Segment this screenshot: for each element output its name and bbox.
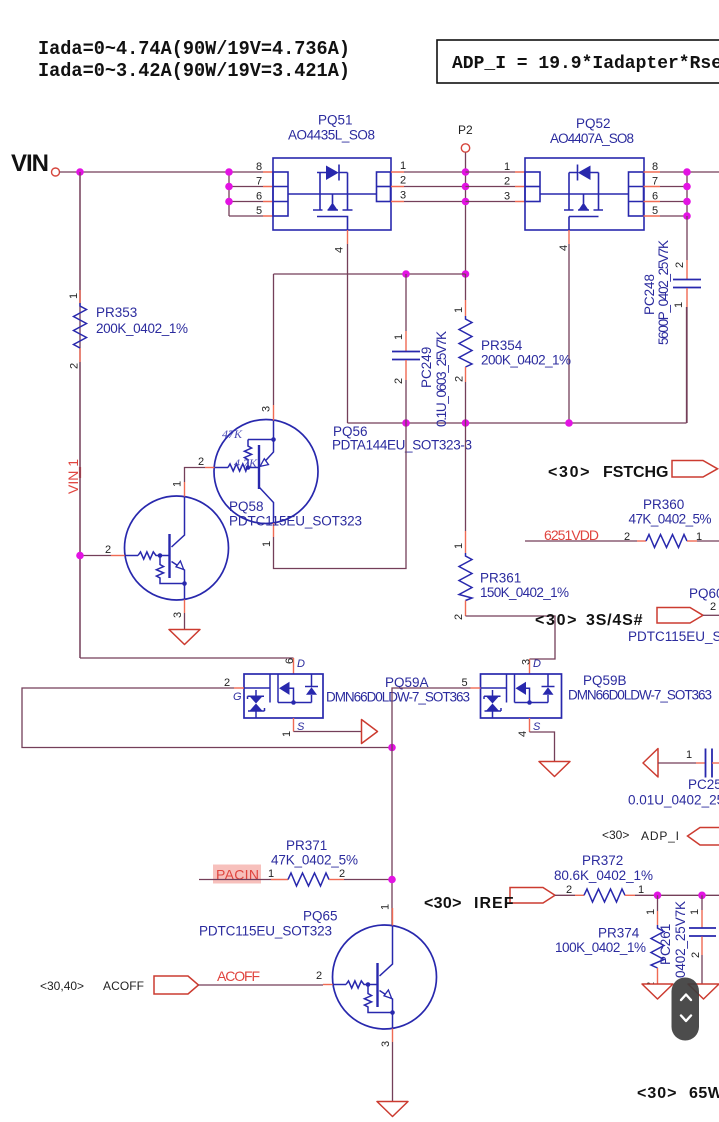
net flag ADP_I (left-pointing, clipped) bbox=[688, 828, 719, 846]
svg-text:0402_25V7K: 0402_25V7K bbox=[673, 901, 688, 978]
svg-text:1: 1 bbox=[261, 541, 273, 547]
svg-text:2: 2 bbox=[690, 952, 702, 958]
PQ52 body diode (filled, mirrored) bbox=[578, 166, 591, 181]
PQ58 internal node dots bbox=[158, 553, 163, 558]
pin 2 stub PQ65 (base left) bbox=[323, 984, 333, 986]
svg-text:VIN: VIN bbox=[11, 150, 49, 177]
svg-text:7: 7 bbox=[652, 176, 658, 188]
pin stubs PQ52 left (red) bbox=[515, 172, 525, 202]
pin 4 wire PQ51 bbox=[347, 230, 349, 244]
svg-text:3: 3 bbox=[380, 1041, 392, 1047]
svg-text:5: 5 bbox=[652, 205, 658, 217]
resistor PR372 bbox=[554, 853, 719, 902]
svg-text:1: 1 bbox=[380, 904, 392, 910]
wire net y423 horizontal bbox=[348, 307, 687, 423]
svg-text:<30>: <30> bbox=[548, 464, 590, 481]
svg-text:5: 5 bbox=[256, 205, 262, 217]
pin 2 wire PQ58 (base left) bbox=[111, 555, 125, 557]
resistor PR354 bbox=[453, 274, 571, 423]
PQ59A channel arrow (filled, left) bbox=[279, 682, 290, 695]
svg-text:IREF: IREF bbox=[474, 895, 514, 912]
svg-text:3S/4S#: 3S/4S# bbox=[586, 612, 643, 629]
svg-text:80.6K_0402_1%: 80.6K_0402_1% bbox=[554, 868, 653, 883]
svg-text:<30,40>: <30,40> bbox=[40, 979, 84, 993]
svg-text:3: 3 bbox=[504, 191, 510, 203]
ground below PQ58 bbox=[169, 630, 200, 645]
PQ58 emitter arrow (open) bbox=[176, 561, 184, 570]
PQ59A gate ESD zener (filled hourglass) bbox=[250, 696, 263, 703]
svg-text:S: S bbox=[533, 721, 541, 733]
wire flag to PQ60 bbox=[703, 614, 719, 616]
PQ56 emitter arrow (open) bbox=[260, 459, 269, 467]
svg-text:DMN66D0LDW-7_SOT363: DMN66D0LDW-7_SOT363 bbox=[568, 688, 712, 703]
scroll widget bbox=[672, 978, 700, 1041]
highlight PACIN bbox=[213, 865, 261, 884]
svg-text:PR371: PR371 bbox=[286, 838, 327, 853]
MOSFET PQ52 bbox=[525, 158, 644, 230]
junction dots y423 bbox=[402, 419, 410, 427]
svg-text:2: 2 bbox=[674, 262, 686, 268]
pin 3 wire PQ65 (emitter down) bbox=[392, 1029, 394, 1043]
svg-text:PR361: PR361 bbox=[480, 571, 521, 586]
svg-text:Iada=0~3.42A(90W/19V=3.421A): Iada=0~3.42A(90W/19V=3.421A) bbox=[38, 60, 350, 82]
svg-text:1: 1 bbox=[673, 302, 685, 308]
svg-text:D: D bbox=[297, 658, 305, 670]
svg-text:8: 8 bbox=[256, 161, 262, 173]
PQ51 substrate arrow (filled) bbox=[328, 203, 337, 210]
svg-text:0.01U_0402_25V7K: 0.01U_0402_25V7K bbox=[628, 793, 719, 808]
resistor PR371 bbox=[199, 838, 392, 886]
wire ACOFF to PQ65 bbox=[199, 984, 324, 986]
svg-text:D: D bbox=[533, 658, 541, 670]
svg-text:2: 2 bbox=[566, 884, 572, 896]
svg-text:PQ65: PQ65 bbox=[303, 909, 338, 924]
wires PQ51 to P2 column bbox=[404, 172, 466, 202]
svg-text:2: 2 bbox=[710, 601, 716, 613]
svg-text:2: 2 bbox=[316, 970, 322, 982]
svg-text:G: G bbox=[233, 691, 242, 703]
svg-text:1: 1 bbox=[504, 161, 510, 173]
pin 4 wire PQ52 bbox=[568, 230, 570, 244]
svg-text:1: 1 bbox=[638, 884, 644, 896]
svg-text:PR354: PR354 bbox=[481, 338, 523, 353]
PQ59A body diode (filled, up) bbox=[306, 687, 317, 695]
svg-text:ACOFF: ACOFF bbox=[103, 979, 144, 993]
svg-text:4: 4 bbox=[558, 245, 570, 251]
terminal arrow (left) for PC250 bbox=[643, 749, 658, 778]
capacitor PC248 bbox=[642, 216, 701, 423]
pin 1 wire PQ58 (collector up) bbox=[184, 482, 186, 497]
svg-text:3: 3 bbox=[172, 612, 184, 618]
svg-text:PDTC115EU_SOT323: PDTC115EU_SOT323 bbox=[628, 629, 719, 644]
svg-text:2: 2 bbox=[400, 175, 406, 187]
svg-text:PR372: PR372 bbox=[582, 853, 623, 868]
pin 3 wire PQ56 (emitter up) bbox=[273, 405, 275, 421]
wire VIN vertical x80 bbox=[79, 172, 81, 658]
resistor PR361 bbox=[453, 423, 569, 620]
ground below PR374 bbox=[642, 984, 673, 999]
pin 1 wire PQ56 (collector down) bbox=[273, 523, 275, 537]
svg-text:5: 5 bbox=[462, 677, 468, 689]
svg-text:PDTC115EU_SOT323: PDTC115EU_SOT323 bbox=[199, 924, 332, 939]
wire loop vertical to PACIN row bbox=[391, 748, 393, 926]
junction dots y274 bbox=[402, 270, 410, 278]
svg-text:<30>: <30> bbox=[637, 1085, 677, 1102]
net flag FSTCHG bbox=[672, 461, 718, 478]
pin 3 wire PQ58 (emitter down) bbox=[184, 600, 186, 614]
transistor PQ65 (NPN digital) bbox=[199, 904, 437, 1117]
svg-text:1: 1 bbox=[645, 909, 657, 915]
net tick on VIN_1 wire bbox=[79, 467, 81, 478]
svg-text:FSTCHG: FSTCHG bbox=[603, 464, 669, 481]
pin stubs PQ51 left (red) bbox=[263, 172, 273, 216]
svg-text:0.1U_0603_25V7K: 0.1U_0603_25V7K bbox=[434, 331, 449, 427]
svg-text:200K_0402_1%: 200K_0402_1% bbox=[481, 353, 571, 368]
wire net y274 horizontal bbox=[274, 273, 466, 275]
svg-text:65W: 65W bbox=[689, 1085, 719, 1102]
PQ51 body diode (filled) bbox=[326, 166, 339, 181]
wire VIN horizontal top bbox=[60, 171, 230, 173]
svg-text:6: 6 bbox=[652, 191, 658, 203]
capacitor PC250 bbox=[628, 749, 719, 808]
svg-text:<30>: <30> bbox=[424, 895, 462, 912]
svg-text:7: 7 bbox=[256, 176, 262, 188]
svg-text:6: 6 bbox=[284, 658, 296, 664]
wires PQ52 right to x687 column bbox=[660, 172, 719, 216]
svg-text:2: 2 bbox=[624, 531, 630, 543]
junction dot VIN/PQ58 base bbox=[76, 552, 84, 560]
net flag IREF bbox=[510, 888, 555, 904]
PQ59B source dot bbox=[527, 700, 532, 705]
MOSFET PQ51 bbox=[273, 158, 391, 230]
junction dot PACIN net bbox=[388, 876, 396, 884]
svg-text:1: 1 bbox=[172, 481, 184, 487]
svg-text:PC249: PC249 bbox=[419, 347, 434, 388]
svg-text:6: 6 bbox=[256, 191, 262, 203]
svg-text:PR353: PR353 bbox=[96, 305, 137, 320]
svg-text:2: 2 bbox=[454, 376, 466, 382]
svg-text:100K_0402_1%: 100K_0402_1% bbox=[555, 940, 646, 955]
svg-text:PQ60: PQ60 bbox=[689, 586, 719, 601]
wire PQ58-emitter-net bottom horizontal y658 bbox=[80, 657, 294, 659]
svg-text:1: 1 bbox=[281, 731, 293, 737]
svg-text:2: 2 bbox=[504, 176, 510, 188]
pin 2 wire PQ56 (base left) bbox=[205, 467, 215, 469]
svg-text:1: 1 bbox=[393, 334, 405, 340]
svg-text:ADP_I: ADP_I bbox=[641, 829, 679, 843]
wire P2 column bbox=[465, 153, 467, 275]
PQ59B gate ESD zener (filled hourglass) bbox=[486, 696, 499, 703]
pin 1 wire PQ59A source bbox=[293, 718, 295, 732]
svg-text:DMN66D0LDW-7_SOT363: DMN66D0LDW-7_SOT363 bbox=[326, 690, 470, 705]
svg-text:AO4435L_SO8: AO4435L_SO8 bbox=[288, 128, 375, 143]
svg-text:200K_0402_1%: 200K_0402_1% bbox=[96, 321, 188, 336]
pin stubs PQ52 right (red) bbox=[644, 172, 661, 216]
junction dots x687 column bbox=[683, 168, 691, 176]
junction dots x229 column bbox=[225, 168, 233, 176]
junction dot loop/PQ59B gate bbox=[388, 744, 396, 752]
PQ59A source dot bbox=[291, 700, 296, 705]
pin 1 wire PQ65 (collector up) bbox=[392, 908, 394, 926]
pin 5 wire PQ59B gate bbox=[471, 687, 481, 689]
svg-text:4: 4 bbox=[517, 731, 529, 737]
wires P2 column to PQ52 bbox=[466, 172, 516, 202]
formula box ADP_I bbox=[437, 40, 719, 83]
pin stubs PQ51 right (red) bbox=[391, 172, 404, 202]
svg-text:5600P_0402_25V7K: 5600P_0402_25V7K bbox=[656, 240, 671, 345]
capacitor PC249 bbox=[392, 274, 449, 427]
terminal circle VIN bbox=[52, 168, 60, 176]
ground below PC261 (clipped) bbox=[688, 984, 719, 999]
wire stub column x229 to PQ51 bbox=[229, 172, 263, 216]
net flag PQ60 pin2 bbox=[657, 608, 703, 624]
ground below PQ59B bbox=[539, 762, 570, 777]
svg-text:3: 3 bbox=[521, 659, 533, 665]
svg-text:PC250: PC250 bbox=[688, 777, 719, 792]
svg-text:PDTA144EU_SOT323-3: PDTA144EU_SOT323-3 bbox=[332, 438, 472, 453]
capacitor PC261 bbox=[658, 895, 716, 984]
svg-text:S: S bbox=[297, 721, 305, 733]
svg-text:P2: P2 bbox=[458, 123, 473, 137]
svg-text:PR374: PR374 bbox=[598, 926, 640, 941]
svg-text:1: 1 bbox=[453, 307, 465, 313]
junction dots P2 column bbox=[462, 168, 470, 176]
svg-text:PQ58: PQ58 bbox=[229, 499, 264, 514]
svg-text:PC261: PC261 bbox=[658, 924, 673, 965]
junction dot PR374 bbox=[654, 892, 662, 900]
svg-text:1: 1 bbox=[68, 293, 80, 299]
svg-text:3: 3 bbox=[400, 190, 406, 202]
svg-text:PDTC115EU_SOT323: PDTC115EU_SOT323 bbox=[229, 514, 362, 529]
svg-text:4.7K: 4.7K bbox=[234, 456, 258, 470]
svg-text:2: 2 bbox=[393, 378, 405, 384]
svg-text:1: 1 bbox=[453, 543, 465, 549]
dual MOSFET PQ59B bbox=[481, 673, 713, 718]
svg-text:150K_0402_1%: 150K_0402_1% bbox=[480, 585, 569, 600]
svg-text:PC248: PC248 bbox=[642, 274, 657, 315]
PQ65 internal node dots bbox=[366, 982, 371, 987]
svg-text:3: 3 bbox=[261, 406, 273, 412]
svg-text:PQ59B: PQ59B bbox=[583, 673, 627, 688]
pin 3 stub PQ59B drain bbox=[529, 659, 531, 674]
junction dot VIN/PR353 bbox=[76, 168, 84, 176]
svg-text:47K_0402_5%: 47K_0402_5% bbox=[271, 853, 358, 868]
svg-text:PQ51: PQ51 bbox=[318, 113, 353, 128]
svg-text:VIN 1: VIN 1 bbox=[65, 459, 81, 494]
svg-text:PQ52: PQ52 bbox=[576, 116, 611, 131]
svg-text:<30>: <30> bbox=[602, 828, 629, 842]
PQ56 internal node dots bbox=[246, 465, 251, 470]
transistor PQ56 (PNP digital) bbox=[185, 274, 473, 569]
svg-text:47K: 47K bbox=[222, 427, 243, 441]
svg-text:ADP_I = 19.9*Iadapter*Rse: ADP_I = 19.9*Iadapter*Rse bbox=[452, 53, 719, 74]
resistor PR360 bbox=[525, 497, 719, 548]
PQ59B channel arrow (filled, left) bbox=[516, 682, 527, 695]
PQ59B body diode (filled, up) bbox=[543, 687, 554, 695]
dual MOSFET PQ59A bbox=[244, 674, 470, 718]
svg-text:2: 2 bbox=[105, 544, 111, 556]
pin 2 wire PQ59A gate bbox=[234, 687, 244, 689]
net flag ACOFF bbox=[154, 976, 199, 994]
svg-text:8: 8 bbox=[652, 161, 658, 173]
resistor PR374 bbox=[555, 895, 664, 988]
svg-text:2: 2 bbox=[69, 363, 81, 369]
PQ52 substrate arrow (filled) bbox=[579, 203, 588, 210]
ground below PQ65 bbox=[377, 1102, 408, 1117]
transistor PQ58 (NPN digital) bbox=[76, 481, 362, 645]
pin 4 wire PQ59B source bbox=[529, 718, 531, 732]
pin 6 stub PQ59A drain bbox=[293, 658, 295, 674]
svg-text:1: 1 bbox=[686, 749, 692, 761]
svg-text:2: 2 bbox=[339, 868, 345, 880]
PQ65 emitter arrow (open) bbox=[384, 990, 392, 999]
junction dot PC261 bbox=[698, 892, 706, 900]
svg-text:Iada=0~4.74A(90W/19V=4.736A): Iada=0~4.74A(90W/19V=4.736A) bbox=[38, 38, 350, 60]
svg-text:PR360: PR360 bbox=[643, 497, 684, 512]
svg-text:2: 2 bbox=[224, 677, 230, 689]
svg-text:2: 2 bbox=[453, 614, 465, 620]
svg-text:4: 4 bbox=[334, 247, 346, 253]
svg-text:<30>: <30> bbox=[535, 612, 577, 629]
svg-text:1: 1 bbox=[268, 868, 274, 880]
svg-text:AO4407A_SO8: AO4407A_SO8 bbox=[550, 131, 634, 146]
svg-text:2: 2 bbox=[198, 456, 204, 468]
arrow terminal on PQ59A source bbox=[362, 720, 378, 744]
svg-text:ACOFF: ACOFF bbox=[217, 968, 260, 984]
wire 3S/4S# net bbox=[466, 616, 556, 659]
svg-text:1: 1 bbox=[400, 160, 406, 172]
svg-text:1: 1 bbox=[689, 909, 701, 915]
svg-text:47K_0402_5%: 47K_0402_5% bbox=[629, 512, 712, 527]
svg-text:1: 1 bbox=[696, 531, 702, 543]
resistor PR353 bbox=[68, 172, 188, 658]
